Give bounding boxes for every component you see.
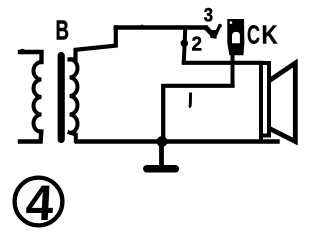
svg-text:3: 3 — [204, 5, 213, 26]
speaker cone — [270, 63, 296, 142]
svg-text:K: K — [262, 20, 278, 50]
wire secondary bottom lead — [70, 133, 76, 142]
jack SK body — [227, 19, 244, 55]
ground junction dot — [157, 136, 168, 147]
svg-text:C: C — [247, 20, 260, 50]
switch arrow contact 3 — [206, 27, 214, 35]
ground bar — [147, 165, 176, 173]
wire second horizontal and down to ground — [163, 86, 232, 142]
transformer B primary winding — [34, 62, 42, 132]
switch arrow top hook — [218, 24, 222, 28]
wire secondary top lead to top rail — [70, 28, 116, 60]
transformer B primary top lead — [20, 49, 26, 55]
wire bottom rail — [77, 139, 278, 143]
svg-text:4: 4 — [24, 175, 55, 231]
label 1 — [189, 93, 191, 108]
transformer B secondary winding — [70, 59, 78, 133]
wire from rail down to node 2 — [184, 28, 186, 63]
svg-text:B: B — [56, 15, 70, 46]
switch arrowhead — [209, 30, 217, 39]
node 2 dot — [181, 40, 189, 48]
transformer core — [58, 56, 65, 140]
speaker box to bottom rail stub — [259, 135, 263, 141]
switch arrow upstroke — [215, 26, 220, 37]
ground stub — [159, 145, 164, 166]
svg-text:2: 2 — [192, 33, 203, 55]
transformer B primary bottom lead — [20, 132, 41, 142]
figure number circle 4 — [15, 178, 63, 226]
wire jack lead down — [231, 54, 235, 86]
speaker box — [261, 63, 269, 136]
wire first horizontal (node2 to speaker) — [184, 61, 261, 65]
wire top rail — [140, 25, 143, 28]
